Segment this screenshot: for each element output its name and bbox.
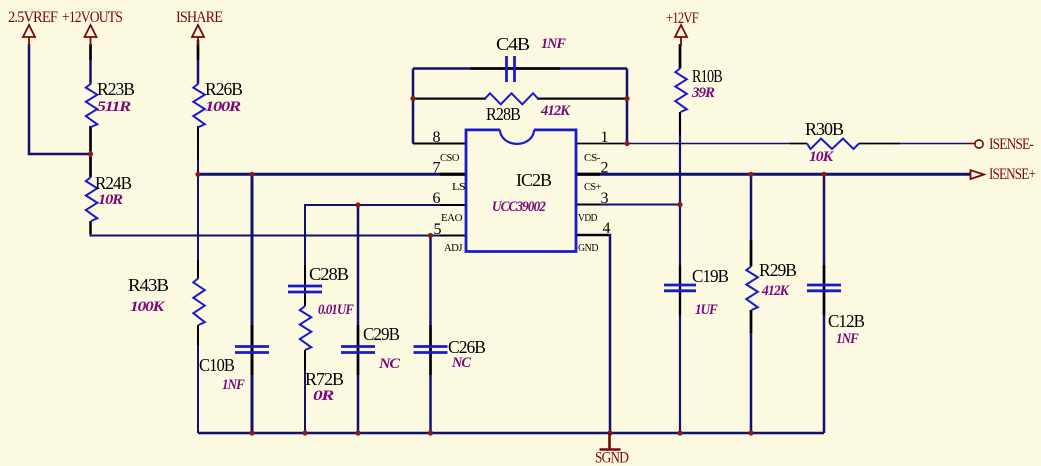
svg-text:GND: GND	[578, 242, 598, 254]
svg-text:4: 4	[603, 220, 611, 237]
svg-text:ISHARE: ISHARE	[176, 9, 222, 26]
svg-text:1NF: 1NF	[541, 36, 566, 52]
svg-text:C28B: C28B	[309, 264, 349, 284]
svg-text:CS-: CS-	[584, 152, 601, 164]
svg-text:1: 1	[601, 129, 609, 146]
svg-text:R29B: R29B	[759, 260, 797, 280]
svg-text:CSO: CSO	[440, 152, 460, 164]
svg-text:R24B: R24B	[95, 173, 132, 193]
svg-text:SGND: SGND	[595, 450, 628, 466]
svg-text:NC: NC	[451, 355, 472, 371]
svg-text:C19B: C19B	[692, 266, 729, 286]
svg-text:+12VF: +12VF	[666, 10, 699, 27]
svg-text:8: 8	[433, 129, 441, 146]
svg-text:3: 3	[601, 190, 609, 207]
svg-text:C29B: C29B	[363, 324, 400, 344]
svg-text:R72B: R72B	[305, 369, 344, 389]
svg-text:1NF: 1NF	[836, 331, 859, 347]
svg-text:R26B: R26B	[205, 79, 243, 99]
svg-text:511R: 511R	[97, 99, 131, 115]
svg-text:0R: 0R	[313, 388, 334, 404]
svg-text:R10B: R10B	[692, 66, 723, 86]
svg-text:R43B: R43B	[128, 275, 169, 295]
svg-text:UCC39002: UCC39002	[492, 199, 546, 215]
svg-text:C4B: C4B	[496, 34, 530, 54]
svg-text:0.01UF: 0.01UF	[318, 302, 354, 318]
svg-text:6: 6	[433, 190, 441, 207]
svg-text:R28B: R28B	[486, 104, 521, 124]
svg-text:412K: 412K	[761, 283, 790, 299]
svg-text:C10B: C10B	[199, 355, 235, 375]
svg-text:2.5VREF: 2.5VREF	[8, 9, 58, 26]
svg-text:EAO: EAO	[441, 212, 463, 224]
svg-text:ADJ: ADJ	[444, 242, 463, 254]
svg-text:ISENSE+: ISENSE+	[989, 166, 1036, 183]
svg-text:10R: 10R	[98, 192, 123, 208]
svg-text:NC: NC	[378, 356, 401, 372]
svg-text:412K: 412K	[540, 103, 571, 119]
svg-text:100R: 100R	[205, 99, 241, 115]
svg-text:R30B: R30B	[805, 119, 844, 139]
svg-text:C26B: C26B	[448, 337, 486, 357]
svg-text:C12B: C12B	[828, 311, 865, 331]
svg-text:CS+: CS+	[584, 181, 601, 193]
svg-text:VDD: VDD	[578, 212, 597, 224]
svg-text:1NF: 1NF	[222, 377, 245, 393]
svg-text:IC2B: IC2B	[516, 170, 552, 190]
svg-text:2: 2	[601, 160, 609, 177]
svg-text:1UF: 1UF	[695, 302, 718, 318]
svg-text:39R: 39R	[691, 85, 715, 101]
svg-text:10K: 10K	[809, 149, 834, 165]
svg-text:ISENSE-: ISENSE-	[989, 136, 1034, 153]
svg-text:+12VOUTS: +12VOUTS	[62, 9, 122, 26]
svg-text:100K: 100K	[130, 299, 165, 315]
svg-text:LS: LS	[452, 181, 465, 193]
svg-text:R23B: R23B	[97, 79, 135, 99]
